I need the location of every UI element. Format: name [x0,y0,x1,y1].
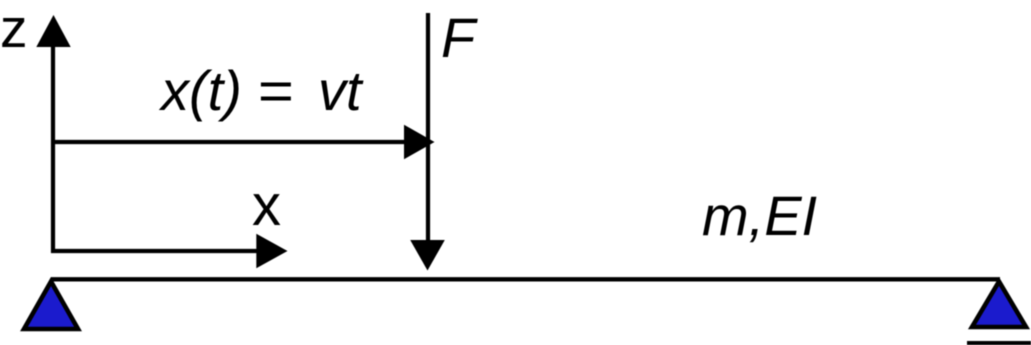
x axis arrowhead [256,234,287,268]
svg-text:x(t): x(t) [158,59,242,122]
svg-text:m,EI: m,EI [702,184,817,247]
svg-text:F: F [441,6,478,69]
force F arrow line [426,13,430,245]
svg-text:=: = [257,59,293,122]
z axis line [51,44,55,253]
svg-text:vt: vt [318,59,364,122]
x(t)=vt arrowhead [404,125,435,160]
ground line under right support [967,341,1031,345]
x axis line [51,249,259,253]
svg-text:x: x [252,173,281,238]
z axis arrowhead [36,15,70,47]
force F arrowhead [410,240,445,271]
left pin support [24,282,78,330]
beam [51,277,1000,281]
right pin support [972,282,1026,328]
x(t)=vt arrow line [51,140,407,144]
svg-text:z: z [0,0,28,59]
